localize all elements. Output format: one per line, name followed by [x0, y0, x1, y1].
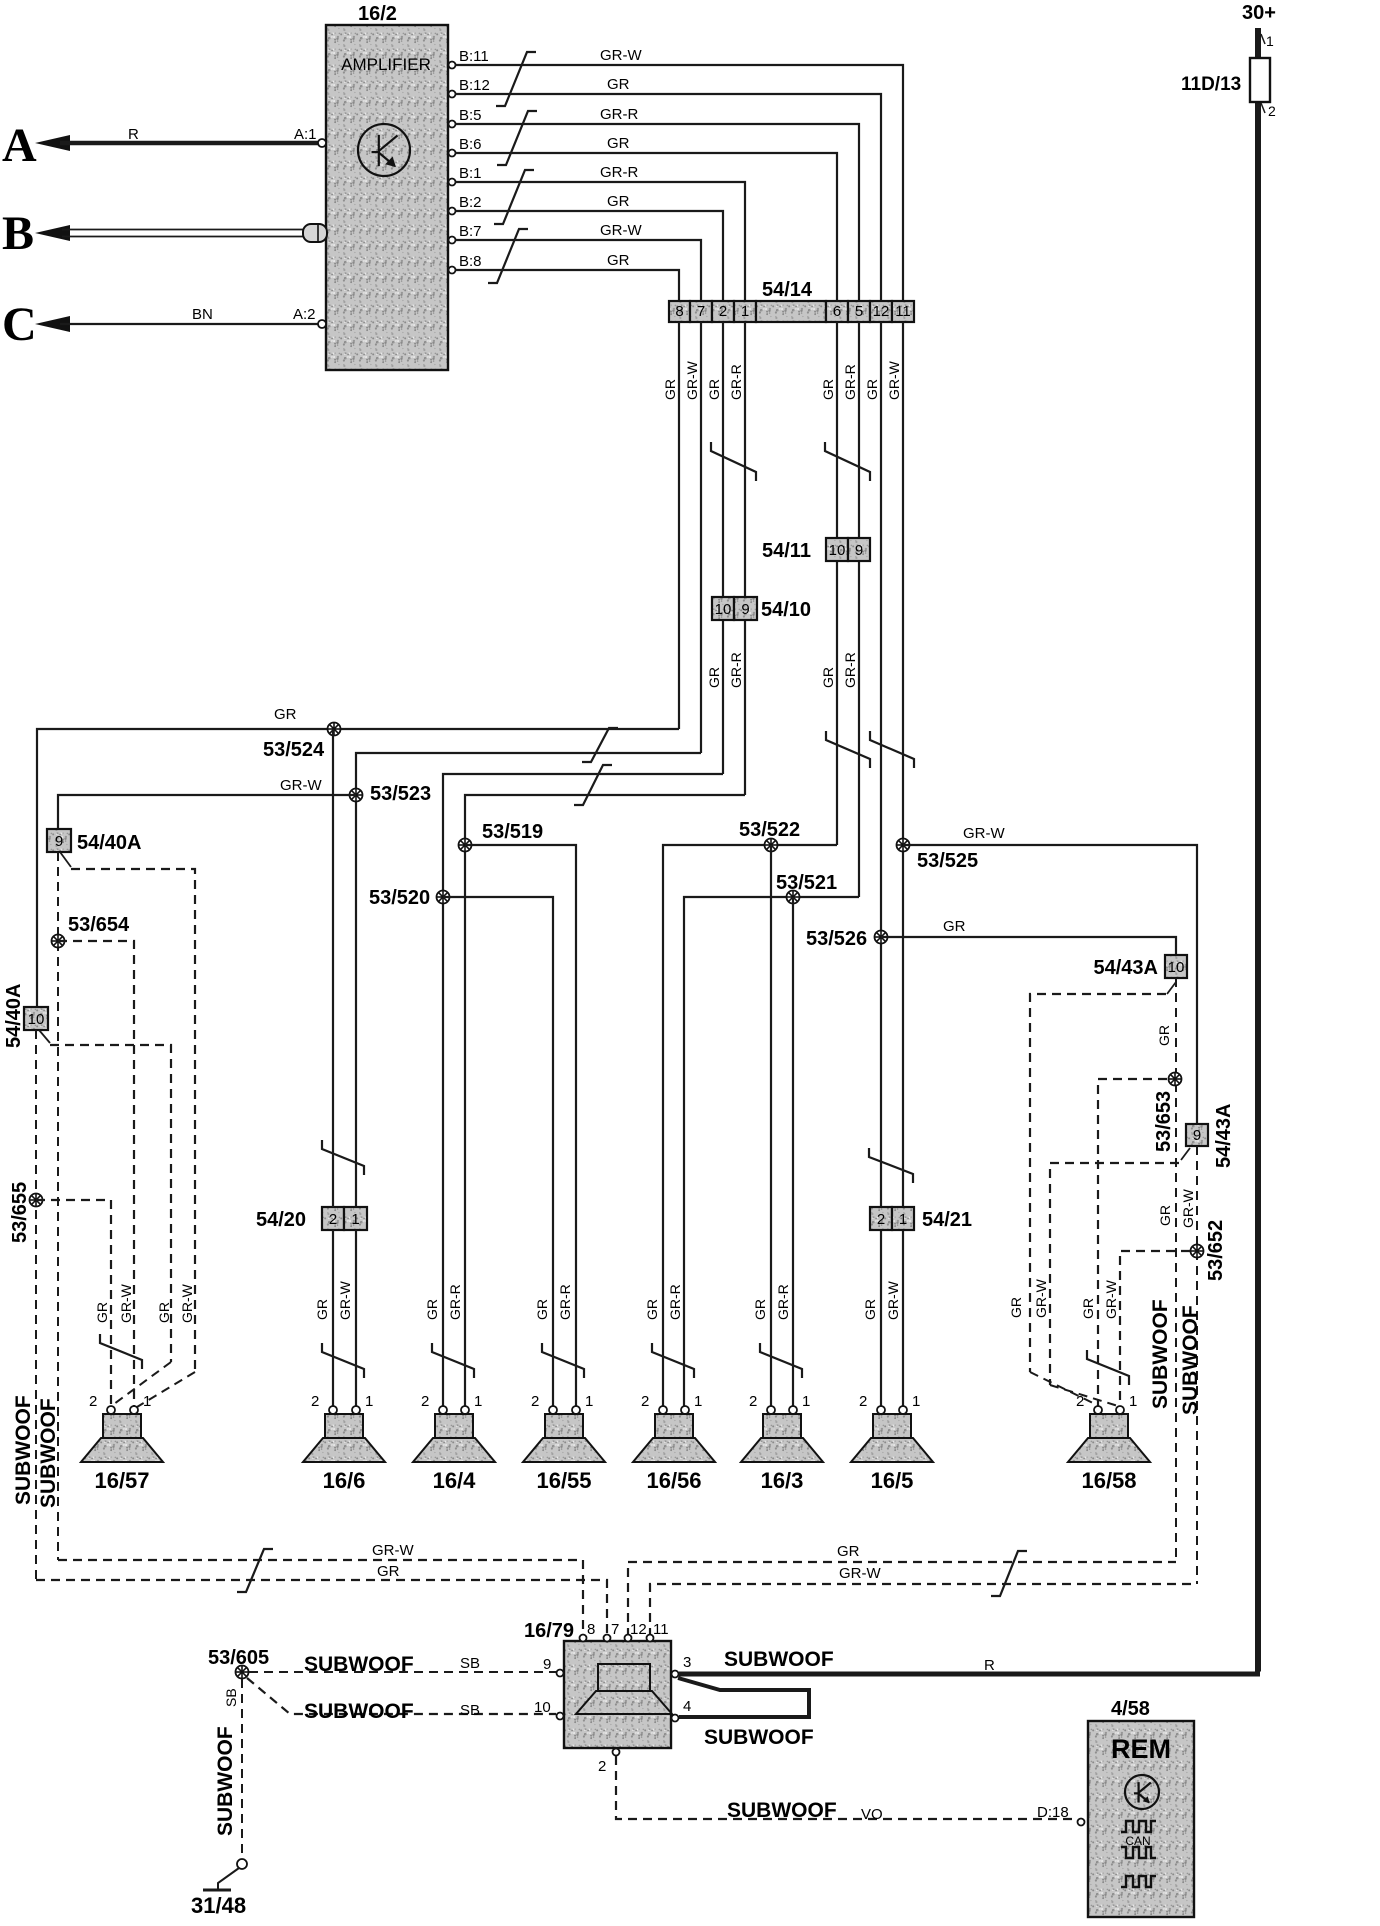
- svg-text:B:1: B:1: [459, 165, 482, 182]
- connector 54/43A pin 10: [1165, 955, 1187, 978]
- speaker 16/4 terminal 2: [439, 1406, 447, 1414]
- svg-text:GR: GR: [607, 193, 630, 210]
- wire BN to A:2: [60, 323, 318, 325]
- svg-text:GR: GR: [1080, 1298, 1096, 1319]
- svg-text:8: 8: [675, 303, 683, 320]
- wire B shielded pair: [62, 229, 305, 231]
- svg-text:16/57: 16/57: [94, 1468, 149, 1493]
- wire GR to 16/56 terminal 2: [663, 845, 837, 1406]
- svg-text:2: 2: [89, 1393, 97, 1410]
- wire GR B-pin to 54/14 pin 12: [456, 94, 882, 301]
- speaker 16/6 terminal 2: [329, 1406, 337, 1414]
- svg-text:2: 2: [859, 1393, 867, 1410]
- break symbol bottom right run: [991, 1551, 1027, 1596]
- svg-text:SB: SB: [460, 1655, 480, 1672]
- wire SB dashed down from 53/605: [241, 1679, 243, 1859]
- svg-text:GR-W: GR-W: [839, 1565, 881, 1582]
- break symbol above 16/6: [322, 1343, 364, 1378]
- connector 54/20: [322, 1207, 367, 1230]
- svg-text:16/55: 16/55: [536, 1468, 591, 1493]
- svg-text:54/43A: 54/43A: [1213, 1104, 1235, 1169]
- wire GR dashed diagonal to 16/57 terminal 2: [114, 1362, 171, 1404]
- svg-text:2: 2: [329, 1211, 337, 1228]
- wire GR-W to 53/523: [356, 753, 701, 1207]
- svg-text:SUBWOOF: SUBWOOF: [727, 1799, 837, 1822]
- svg-text:16/4: 16/4: [433, 1468, 477, 1493]
- wire GR B-pin to 54/14 pin 2: [456, 211, 724, 301]
- wire GR branch to 16/55 terminal 2: [443, 897, 553, 1406]
- speaker 16/58: [1068, 1414, 1150, 1462]
- svg-text:GR-W: GR-W: [885, 1280, 901, 1320]
- svg-text:GR-R: GR-R: [775, 1284, 791, 1320]
- speaker 16/4 terminal 1: [461, 1406, 469, 1414]
- wire GR-R to 53/519 and 16/4 terminal 1: [465, 795, 745, 1406]
- svg-text:A: A: [2, 119, 37, 172]
- wire GR-W 54/20 pin 1 to 16/6 terminal 1: [355, 1230, 357, 1406]
- pin B:5: [449, 121, 456, 128]
- arrow B: [35, 225, 70, 241]
- pin 11 of 16/79: [647, 1635, 654, 1642]
- svg-text:GR-W: GR-W: [600, 47, 642, 64]
- wire SB dashed to 16/79 pin 10: [247, 1678, 556, 1714]
- svg-text:SUBWOOF: SUBWOOF: [704, 1726, 814, 1749]
- svg-text:8: 8: [587, 1621, 595, 1638]
- break symbol pair 2/1 wires: [711, 442, 756, 481]
- svg-text:2: 2: [1268, 103, 1276, 119]
- wire GR-W dashed to corner left: [1050, 1163, 1179, 1385]
- svg-text:GR: GR: [424, 1299, 440, 1320]
- svg-text:1: 1: [741, 303, 749, 320]
- wire R to A:1: [60, 141, 322, 146]
- lead below 54/40A pin 10: [39, 1030, 50, 1043]
- speaker 16/4: [413, 1414, 495, 1462]
- svg-text:GR-R: GR-R: [728, 364, 744, 400]
- pin B:11: [449, 62, 456, 69]
- wire GR 54/21 pin 2 to 16/5 terminal 2: [880, 1230, 882, 1406]
- svg-text:GR: GR: [820, 667, 836, 688]
- svg-text:GR-R: GR-R: [600, 106, 638, 123]
- svg-text:54/14: 54/14: [762, 279, 813, 301]
- pin 10 of 16/79: [557, 1713, 564, 1720]
- svg-text:12: 12: [630, 1621, 647, 1638]
- splice 53/653: [1169, 1073, 1182, 1086]
- ground 31/48: [203, 1889, 231, 1892]
- svg-text:54/10: 54/10: [761, 599, 811, 621]
- speaker 16/6 terminal 1: [352, 1406, 360, 1414]
- svg-text:GR-W: GR-W: [280, 777, 322, 794]
- pin D:18: [1078, 1819, 1085, 1826]
- svg-text:SB: SB: [223, 1688, 239, 1707]
- break symbol above 16/55: [542, 1343, 584, 1378]
- svg-text:9: 9: [543, 1656, 551, 1673]
- wire GR-R 54/10 pin 9 down: [744, 620, 746, 795]
- connector 54/43A pin 9: [1186, 1124, 1208, 1146]
- svg-text:GR: GR: [1008, 1297, 1024, 1318]
- svg-text:53/522: 53/522: [739, 819, 800, 841]
- pin 1 of 11D/13: [1261, 34, 1265, 44]
- svg-text:GR-W: GR-W: [684, 360, 700, 400]
- wire GR B-pin to 54/14 pin 6: [456, 153, 838, 301]
- wire 30+ supply (thick): [1255, 28, 1261, 1672]
- wire GR-W dashed branch to 16/57 terminal 1: [58, 941, 134, 1406]
- svg-text:B:12: B:12: [459, 77, 490, 94]
- svg-text:7: 7: [697, 303, 705, 320]
- amplifier 16/2: [326, 25, 448, 370]
- wire GR 54/10 pin 10 down: [722, 620, 724, 774]
- module REM 4/58: [1088, 1721, 1194, 1917]
- svg-text:B:7: B:7: [459, 223, 482, 240]
- wire GR-W dashed run 16/79 pin 11 to 54/43A: [650, 1584, 1197, 1637]
- break symbol pair 12/11 wires above 54/21: [869, 1148, 913, 1183]
- pin B:6: [449, 150, 456, 157]
- wire GR-W dashed diagonal to 16/58 terminal 1: [1050, 1385, 1118, 1406]
- wire GR dashed diagonal to 16/58 terminal 2: [1030, 1372, 1095, 1404]
- svg-text:16/56: 16/56: [646, 1468, 701, 1493]
- svg-text:GR-R: GR-R: [600, 164, 638, 181]
- wire GR dashed run to 16/79 pin 7: [36, 1580, 607, 1637]
- speaker 16/6: [303, 1414, 385, 1462]
- svg-text:4/58: 4/58: [1111, 1698, 1150, 1720]
- wire VO dashed 16/79 pin 2 to REM D:18: [616, 1756, 1076, 1819]
- svg-text:1: 1: [351, 1211, 359, 1228]
- svg-text:D:18: D:18: [1037, 1804, 1069, 1821]
- splice 53/652: [1191, 1245, 1204, 1258]
- REM symbol: [1125, 1775, 1159, 1809]
- svg-text:53/524: 53/524: [263, 739, 325, 761]
- svg-text:53/654: 53/654: [68, 914, 130, 936]
- splice 53/526: [875, 931, 888, 944]
- wire GR-W branch to 54/43A pin 9: [903, 845, 1197, 1124]
- svg-text:GR-W: GR-W: [337, 1280, 353, 1320]
- pin 12 of 16/79: [625, 1635, 632, 1642]
- speaker 16/5 terminal 2: [877, 1406, 885, 1414]
- lead below 54/43A pin 9: [1181, 1148, 1190, 1160]
- wire GR 54/11 pin 10 down: [836, 561, 838, 845]
- speaker 16/57 terminal 1: [130, 1406, 138, 1414]
- svg-text:11: 11: [895, 303, 911, 320]
- svg-text:7: 7: [611, 1621, 619, 1638]
- wire GR-W dashed down from 54/40A pin 9: [57, 852, 59, 1560]
- svg-text:53/519: 53/519: [482, 821, 543, 843]
- wire GR dashed down from 54/40A pin 10: [35, 1030, 37, 1580]
- svg-text:53/605: 53/605: [208, 1647, 269, 1669]
- svg-text:C: C: [2, 298, 37, 351]
- svg-text:REM: REM: [1111, 1734, 1171, 1764]
- svg-text:B:11: B:11: [459, 48, 489, 65]
- svg-text:GR-R: GR-R: [842, 364, 858, 400]
- REM square wave 3: [1121, 1876, 1156, 1887]
- svg-text:GR: GR: [862, 1299, 878, 1320]
- svg-text:GR-W: GR-W: [372, 1542, 414, 1559]
- wire GR branch to 54/43A pin 10: [881, 937, 1176, 955]
- splice 53/520: [437, 891, 450, 904]
- svg-text:53/526: 53/526: [806, 928, 867, 950]
- svg-text:4: 4: [683, 1698, 691, 1715]
- speaker 16/55 terminal 1: [572, 1406, 580, 1414]
- break symbol on middle horizontals: [574, 765, 612, 805]
- svg-text:GR: GR: [662, 379, 678, 400]
- connector 54/40A pin 10: [24, 1007, 48, 1030]
- svg-text:16/58: 16/58: [1081, 1468, 1136, 1493]
- svg-text:9: 9: [741, 601, 749, 618]
- wire GR-R B-pin to 54/14 pin 1: [456, 182, 746, 301]
- svg-text:AMPLIFIER: AMPLIFIER: [341, 55, 431, 74]
- pin B:12: [449, 91, 456, 98]
- wire GR 54/14 pin 6 to 54/11 pin 10: [836, 322, 838, 538]
- svg-text:GR-R: GR-R: [557, 1284, 573, 1320]
- pin 2 of 16/79: [613, 1749, 620, 1756]
- speaker 16/5: [851, 1414, 933, 1462]
- break symbol pair B:7/B:8: [488, 229, 528, 283]
- svg-text:54/11: 54/11: [762, 540, 811, 562]
- wire GR 54/14 pin 8 down: [678, 322, 680, 729]
- svg-text:GR-W: GR-W: [1103, 1279, 1119, 1319]
- svg-text:R: R: [984, 1657, 995, 1674]
- svg-text:11D/13: 11D/13: [1181, 74, 1241, 95]
- break symbol above 16/4: [432, 1343, 474, 1378]
- break symbol on GR/GR-W horizontals: [582, 728, 618, 762]
- svg-text:6: 6: [833, 303, 841, 320]
- svg-text:2: 2: [877, 1211, 885, 1228]
- wire GR dashed branch to 16/57 terminal 2: [36, 1200, 111, 1406]
- wire GR branch to 16/3 terminal 2: [770, 845, 772, 1406]
- speaker 16/55 terminal 2: [549, 1406, 557, 1414]
- svg-text:GR: GR: [534, 1299, 550, 1320]
- svg-text:GR-W: GR-W: [600, 222, 642, 239]
- wire GR dashed to corner left: [1030, 994, 1166, 1372]
- svg-text:GR: GR: [607, 252, 630, 269]
- svg-text:GR-R: GR-R: [667, 1284, 683, 1320]
- pin B:8: [449, 267, 456, 274]
- svg-text:SUBWOOF: SUBWOOF: [304, 1653, 414, 1676]
- svg-text:SUBWOOF: SUBWOOF: [1179, 1305, 1202, 1415]
- svg-text:GR-W: GR-W: [118, 1283, 134, 1323]
- wire GR-W B-pin to 54/14 pin 11: [456, 65, 904, 301]
- svg-text:GR-W: GR-W: [179, 1283, 195, 1323]
- wire GR-R 54/14 pin 1 to 54/10 pin 9: [744, 322, 746, 597]
- svg-text:1: 1: [1266, 33, 1274, 49]
- svg-text:53/521: 53/521: [776, 872, 837, 894]
- REM square wave 2: [1121, 1847, 1156, 1858]
- svg-text:1: 1: [1129, 1393, 1137, 1410]
- jumper loop pin 3 to pin 4: [678, 1678, 809, 1717]
- wire GR dashed to corner: [50, 1045, 171, 1362]
- wire GR to 53/520 and 16/4 terminal 2: [443, 774, 723, 1406]
- svg-text:53/525: 53/525: [917, 850, 978, 872]
- svg-text:1: 1: [474, 1393, 482, 1410]
- svg-text:1: 1: [585, 1393, 593, 1410]
- svg-text:16/5: 16/5: [871, 1468, 914, 1493]
- svg-text:SUBWOOF: SUBWOOF: [724, 1648, 834, 1671]
- break symbol pair 6/5 wires lower: [826, 731, 870, 768]
- svg-text:GR: GR: [706, 379, 722, 400]
- svg-text:A:1: A:1: [294, 126, 317, 143]
- svg-text:30+: 30+: [1242, 2, 1276, 24]
- connector 54/11: [826, 538, 870, 561]
- svg-text:GR: GR: [314, 1299, 330, 1320]
- connector 54/14: [669, 301, 914, 322]
- svg-text:B:5: B:5: [459, 107, 482, 124]
- break symbol pair 6/5 wires: [825, 442, 870, 481]
- lead below 54/43A pin 10: [1167, 982, 1176, 994]
- svg-text:1: 1: [912, 1393, 920, 1410]
- svg-text:GR-W: GR-W: [963, 825, 1005, 842]
- speaker 16/3 terminal 1: [789, 1406, 797, 1414]
- svg-text:9: 9: [1193, 1127, 1201, 1144]
- svg-text:2: 2: [641, 1393, 649, 1410]
- connector bullet B: [303, 224, 327, 242]
- pin 9 of 16/79: [557, 1670, 564, 1677]
- svg-text:53/653: 53/653: [1153, 1091, 1175, 1152]
- arrow A: [35, 135, 70, 151]
- svg-text:VO: VO: [861, 1806, 883, 1823]
- svg-text:GR: GR: [1157, 1205, 1173, 1226]
- svg-text:GR: GR: [943, 918, 966, 935]
- svg-text:GR: GR: [377, 1563, 400, 1580]
- splice 53/522: [765, 839, 778, 852]
- pin B:1: [449, 179, 456, 186]
- speaker 16/56 terminal 2: [659, 1406, 667, 1414]
- break symbol above 16/56: [652, 1343, 694, 1378]
- svg-text:1: 1: [365, 1393, 373, 1410]
- svg-text:53/523: 53/523: [370, 783, 431, 805]
- svg-text:53/655: 53/655: [9, 1182, 31, 1243]
- wire GR 54/14 pin 12 to 54/21 pin 2: [880, 322, 882, 1207]
- speaker 16/58 terminal 1: [1116, 1406, 1124, 1414]
- pin B:7: [449, 237, 456, 244]
- pin 7 of 16/79: [604, 1635, 611, 1642]
- wire GR-R to 16/56 terminal 1: [684, 897, 859, 1406]
- arrow C: [35, 316, 70, 332]
- wire GR dashed run 16/79 pin 12 to 54/43A: [628, 1562, 1176, 1637]
- splice 53/525: [897, 839, 910, 852]
- svg-text:R: R: [128, 126, 139, 143]
- splice 53/523: [350, 789, 363, 802]
- wire GR 54/14 pin 2 to 54/10 pin 10: [722, 322, 724, 597]
- amplifier symbol: [358, 124, 410, 176]
- speaker 16/3 terminal 2: [767, 1406, 775, 1414]
- svg-text:10: 10: [829, 542, 846, 559]
- svg-text:GR: GR: [156, 1302, 172, 1323]
- svg-text:2: 2: [311, 1393, 319, 1410]
- wire GR-W 54/21 pin 1 to 16/5 terminal 1: [902, 1230, 904, 1406]
- svg-text:9: 9: [55, 833, 63, 850]
- svg-text:GR-R: GR-R: [728, 652, 744, 688]
- wire GR dashed branch to 16/58 terminal 2: [1098, 1079, 1167, 1406]
- svg-text:2: 2: [1076, 1393, 1084, 1410]
- svg-text:16/3: 16/3: [761, 1468, 804, 1493]
- speaker 16/56 terminal 1: [681, 1406, 689, 1414]
- svg-text:2: 2: [598, 1758, 606, 1775]
- svg-text:11: 11: [653, 1621, 669, 1638]
- break symbol above 16/3: [760, 1343, 802, 1378]
- wire GR-W dashed branch to 16/58 terminal 1: [1120, 1251, 1190, 1406]
- svg-text:GR: GR: [607, 135, 630, 152]
- wire GR 53/524 to 54/20 pin 2: [332, 729, 334, 1207]
- svg-text:12: 12: [873, 303, 890, 320]
- svg-text:1: 1: [694, 1393, 702, 1410]
- wire GR-R branch to 16/55 terminal 1: [465, 845, 576, 1406]
- svg-text:5: 5: [855, 303, 863, 320]
- pin 4 of 16/79: [672, 1715, 679, 1722]
- subwoofer symbol in 16/79: [598, 1664, 650, 1691]
- wire GR-W 54/14 pin 11 to 54/21 pin 1: [902, 322, 904, 1207]
- pin B:2: [449, 208, 456, 215]
- splice 53/655: [30, 1194, 43, 1207]
- speaker 16/56: [633, 1414, 715, 1462]
- svg-text:GR-W: GR-W: [886, 360, 902, 400]
- wire GR 54/20 pin 2 to 16/6 terminal 2: [332, 1230, 334, 1406]
- svg-text:53/652: 53/652: [1205, 1220, 1227, 1281]
- svg-text:GR: GR: [837, 1543, 860, 1560]
- svg-text:16/79: 16/79: [524, 1620, 574, 1642]
- wire GR-R branch to 16/3 terminal 1: [792, 897, 794, 1406]
- svg-text:B:6: B:6: [459, 136, 482, 153]
- svg-text:3: 3: [683, 1654, 691, 1671]
- svg-text:GR: GR: [706, 667, 722, 688]
- splice 53/524: [328, 723, 341, 736]
- connector 54/21: [870, 1207, 914, 1230]
- wire GR dashed down from 54/43A pin 10: [1175, 978, 1177, 1562]
- svg-text:SUBWOOF: SUBWOOF: [214, 1726, 237, 1836]
- connector 11D/13: [1250, 58, 1270, 102]
- splice 53/519: [459, 839, 472, 852]
- wire GR-W dashed diagonal to 16/57 terminal 1: [137, 1372, 195, 1407]
- svg-text:1: 1: [802, 1393, 810, 1410]
- svg-text:GR-W: GR-W: [1033, 1278, 1049, 1318]
- wire GR-W 54/14 pin 7 down: [700, 322, 702, 753]
- svg-text:10: 10: [28, 1011, 45, 1028]
- svg-text:SUBWOOF: SUBWOOF: [304, 1700, 414, 1723]
- ground lead 31/48: [218, 1868, 239, 1890]
- break symbol pair 12/11 wires: [870, 731, 914, 768]
- svg-text:31/48: 31/48: [191, 1893, 246, 1918]
- speaker 16/55: [523, 1414, 605, 1462]
- pin 2 of 11D/13: [1261, 103, 1265, 113]
- svg-text:GR-R: GR-R: [447, 1284, 463, 1320]
- speaker 16/57: [81, 1414, 163, 1462]
- svg-text:54/40A: 54/40A: [77, 832, 142, 854]
- wire GR-R 54/11 pin 9 down: [858, 561, 860, 897]
- svg-text:GR: GR: [607, 76, 630, 93]
- break symbol pair B:11/B:12: [496, 52, 536, 106]
- svg-text:54/43A: 54/43A: [1094, 957, 1159, 979]
- break symbol pair 16/57 wires: [100, 1334, 142, 1369]
- svg-text:GR: GR: [1156, 1025, 1172, 1046]
- wire GR to 53/524: [37, 729, 679, 1007]
- wire SB dashed to 16/79 pin 9: [249, 1671, 556, 1673]
- svg-text:SUBWOOF: SUBWOOF: [12, 1395, 35, 1505]
- break symbol pair 16/6 wires upper: [322, 1140, 364, 1175]
- ground contact: [237, 1859, 247, 1869]
- svg-text:9: 9: [855, 542, 863, 559]
- svg-text:2: 2: [749, 1393, 757, 1410]
- wire GR-W dashed run to 16/79 pin 8: [58, 1560, 583, 1637]
- wire GR-W dashed down from 54/43A pin 9: [1196, 1146, 1198, 1584]
- svg-text:GR: GR: [274, 706, 297, 723]
- break symbol pair B:5/B:6: [497, 111, 537, 165]
- pin 3 of 16/79: [672, 1671, 679, 1678]
- break symbol pair B:1/B:2: [494, 170, 534, 224]
- svg-text:16/6: 16/6: [323, 1468, 366, 1493]
- splice 53/521: [787, 891, 800, 904]
- speaker 16/57 terminal 2: [107, 1406, 115, 1414]
- svg-text:SB: SB: [460, 1702, 480, 1719]
- svg-text:B:8: B:8: [459, 253, 482, 270]
- svg-text:2: 2: [719, 303, 727, 320]
- pin A:1: [318, 139, 326, 147]
- svg-text:2: 2: [421, 1393, 429, 1410]
